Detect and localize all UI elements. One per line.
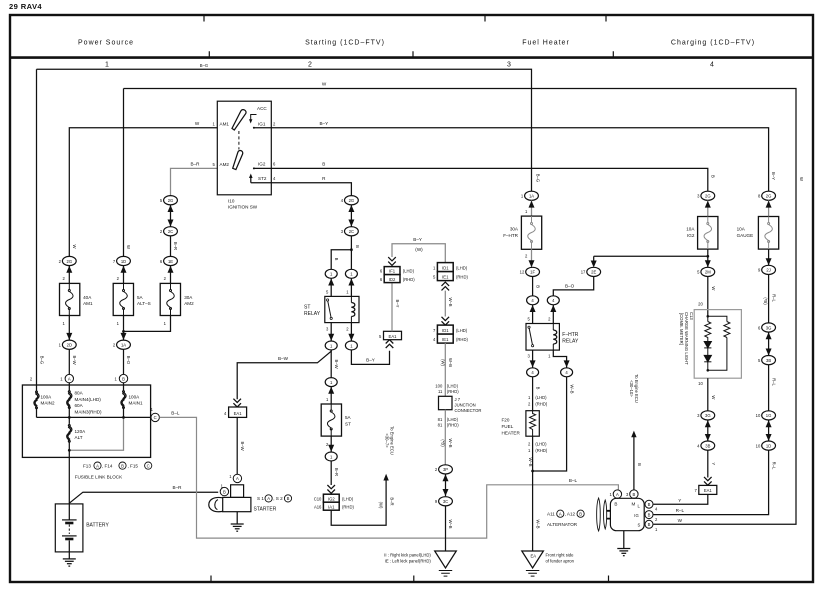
- svg-text:B–Y: B–Y: [395, 300, 400, 308]
- svg-text:B–Y: B–Y: [413, 237, 422, 242]
- svg-text:B–G: B–G: [40, 356, 45, 364]
- svg-text:C: C: [147, 463, 150, 468]
- svg-text:B: B: [648, 512, 651, 517]
- 2(3P) / 9(3C): [439, 465, 453, 474]
- connectors A and B on top: [613, 490, 621, 498]
- svg-text:B: B: [614, 501, 617, 506]
- circled A: [65, 374, 73, 382]
- connector 6(1E): [164, 256, 178, 265]
- svg-text:(RHD): (RHD): [447, 389, 459, 394]
- svg-text:(*B): (*B): [763, 297, 768, 305]
- fuse 10A IG2: [698, 217, 718, 250]
- svg-text:B–L: B–L: [171, 410, 180, 415]
- wire fuse to 2(1A) with junction from AM2 fuse: [123, 316, 125, 341]
- wire B-Y horizontal: [271, 128, 768, 192]
- fuse 10A GAUGE: [758, 217, 778, 250]
- svg-text:(RHD): (RHD): [456, 274, 468, 279]
- svg-text:IG2: IG2: [328, 496, 335, 501]
- wire to C13: [707, 277, 709, 317]
- svg-text:(RHD): (RHD): [535, 402, 547, 407]
- connector 5(2G): [164, 196, 178, 205]
- svg-text:<30–7>: <30–7>: [384, 433, 389, 448]
- svg-text:BATTERY: BATTERY: [86, 522, 109, 528]
- svg-text:B–R: B–R: [334, 468, 339, 476]
- fuse 5A ALT-S: [113, 283, 133, 315]
- svg-text:2: 2: [308, 62, 312, 69]
- svg-text:10: 10: [698, 381, 703, 386]
- svg-text:(W): (W): [440, 359, 445, 366]
- svg-text:W: W: [72, 245, 77, 249]
- svg-text:A: A: [559, 511, 562, 516]
- circles 4 below: [527, 368, 539, 377]
- svg-text:ID1: ID1: [442, 265, 449, 270]
- svg-text:, F14: , F14: [102, 463, 113, 468]
- svg-text:MAIN1: MAIN1: [129, 401, 143, 406]
- svg-text:HEATER: HEATER: [502, 430, 521, 435]
- wire W horizontal: [124, 89, 797, 525]
- gray wire down to J7: [444, 343, 446, 396]
- svg-text:IGNITION SW: IGNITION SW: [228, 204, 258, 209]
- svg-text:A: A: [68, 376, 71, 381]
- svg-text:MAIN2: MAIN2: [41, 401, 55, 406]
- svg-text:B–W: B–W: [278, 356, 289, 361]
- svg-text:FUEL: FUEL: [502, 424, 514, 429]
- F20 fuel heater: [526, 411, 539, 437]
- svg-text:B: B: [355, 245, 360, 248]
- bus to (C): [37, 416, 151, 418]
- svg-text:C13: C13: [689, 312, 694, 320]
- svg-text:3B: 3B: [766, 358, 771, 363]
- svg-text:A11: A11: [547, 512, 555, 517]
- circle (1): [325, 378, 337, 387]
- svg-text:(LHD): (LHD): [403, 269, 415, 274]
- svg-text:5A: 5A: [345, 415, 352, 420]
- svg-text:, S 2: , S 2: [273, 496, 283, 501]
- svg-text:3P: 3P: [443, 467, 448, 472]
- svg-text:B: B: [322, 162, 325, 167]
- svg-text:W: W: [126, 245, 131, 249]
- ticks bottom border: [211, 576, 609, 583]
- svg-text:(RHD): (RHD): [456, 337, 468, 342]
- svg-text:IA1: IA1: [328, 504, 335, 509]
- To Engine ECU (30-10) arrow: [633, 437, 635, 490]
- MAIN4/MAIN3 link: [67, 391, 72, 409]
- svg-text:12: 12: [520, 270, 525, 275]
- svg-text:of fender apron: of fender apron: [546, 558, 575, 563]
- J7 box: [439, 396, 453, 409]
- circled B: [119, 374, 127, 382]
- svg-text:W–B: W–B: [448, 519, 453, 528]
- svg-text:W: W: [195, 121, 200, 126]
- svg-text:R–L: R–L: [771, 294, 776, 302]
- svg-text:B: B: [122, 376, 125, 381]
- svg-text:A: A: [96, 463, 99, 468]
- ALT link: [67, 425, 72, 443]
- svg-text:R–L: R–L: [771, 378, 776, 386]
- svg-text:ST: ST: [345, 422, 351, 427]
- svg-text:B–W: B–W: [334, 359, 339, 368]
- ACC contact: [251, 115, 257, 122]
- fuse 5A ST: [321, 404, 341, 436]
- svg-text:EA1: EA1: [234, 411, 243, 416]
- wire B-G left vertical down to fusible link block: [36, 69, 38, 385]
- svg-text:2J: 2J: [766, 268, 770, 273]
- gray link MAIN1 to ALT out: [69, 417, 123, 450]
- svg-text:Charging (1CD–FTV): Charging (1CD–FTV): [671, 40, 755, 47]
- svg-text:Starting (1CD–FTV): Starting (1CD–FTV): [305, 40, 385, 47]
- wire R horizontal: [271, 183, 351, 196]
- svg-text:W: W: [711, 286, 716, 290]
- C13 box (gray): [694, 310, 741, 379]
- svg-text:10A: 10A: [737, 227, 746, 232]
- svg-text:1F: 1F: [530, 270, 535, 275]
- ground triangle II/IE kick panel: [435, 551, 457, 568]
- svg-text:AM2: AM2: [184, 301, 194, 306]
- svg-text:B–R: B–R: [173, 485, 183, 490]
- svg-text:100: 100: [435, 383, 443, 388]
- svg-text:B: B: [648, 522, 651, 527]
- EA1(4) box: [229, 407, 247, 417]
- svg-text:1G: 1G: [766, 413, 772, 418]
- svg-text:29 RAV4: 29 RAV4: [9, 2, 42, 11]
- ST2 contact: [251, 176, 271, 183]
- 3(3G) / 4(3B): [701, 411, 715, 420]
- svg-text:B: B: [536, 285, 541, 288]
- svg-text:B: B: [637, 463, 642, 466]
- svg-text:B–R: B–R: [390, 497, 395, 505]
- below C13: [707, 378, 709, 411]
- svg-text:17: 17: [581, 270, 586, 275]
- svg-text:(LHD): (LHD): [447, 383, 459, 388]
- svg-text:120A: 120A: [75, 429, 87, 434]
- connector 3(2G): [701, 191, 715, 200]
- svg-text:B: B: [710, 175, 715, 178]
- svg-text:2G: 2G: [766, 194, 772, 199]
- svg-text:I10: I10: [228, 198, 235, 203]
- svg-text:R–L: R–L: [676, 508, 685, 513]
- svg-text:4: 4: [710, 62, 714, 69]
- svg-text:S 1: S 1: [257, 496, 264, 501]
- svg-text:B–Y: B–Y: [319, 121, 328, 126]
- svg-text:JUNCTION: JUNCTION: [455, 402, 476, 407]
- svg-text:RELAY: RELAY: [562, 338, 579, 344]
- connector 1(1A): [525, 191, 539, 200]
- svg-text:(LHD): (LHD): [342, 496, 354, 501]
- svg-text:ID2: ID2: [389, 277, 396, 282]
- svg-text:3: 3: [507, 62, 511, 69]
- svg-text:[COMB. METER]: [COMB. METER]: [679, 313, 684, 345]
- down to EA1(7): [707, 450, 709, 477]
- solenoid + body: [231, 485, 244, 498]
- circles (1) top: [325, 269, 337, 278]
- svg-text:B–R: B–R: [173, 242, 178, 250]
- svg-text:2D: 2D: [67, 343, 72, 348]
- svg-text:W–B: W–B: [448, 297, 453, 306]
- svg-text:C10: C10: [314, 496, 322, 501]
- entries: [37, 383, 124, 391]
- ticks on thick line: [209, 51, 613, 57]
- svg-text:W–B: W–B: [536, 519, 541, 528]
- wire 2D to (A): [68, 349, 70, 374]
- svg-text:W: W: [322, 82, 327, 87]
- svg-text:ST2: ST2: [258, 176, 267, 181]
- gray bridge to ID1/IE1: [392, 244, 445, 263]
- IG2 contact: [254, 167, 271, 169]
- right branch W-B: [533, 377, 567, 471]
- ground triangle EA fender apron: [522, 551, 544, 568]
- switch lever AM2: [233, 151, 243, 170]
- svg-text:B–Y: B–Y: [366, 358, 375, 363]
- svg-text:RELAY: RELAY: [304, 311, 321, 317]
- svg-text:A: A: [267, 496, 270, 501]
- svg-text:Front right side: Front right side: [546, 552, 575, 557]
- svg-text:11: 11: [438, 389, 443, 394]
- svg-text:(RHD): (RHD): [447, 422, 459, 427]
- svg-text:20: 20: [698, 301, 703, 306]
- below F20: [532, 436, 534, 551]
- svg-text:W–B: W–B: [570, 384, 575, 393]
- svg-text:2E: 2E: [591, 270, 596, 275]
- wire AM2 fuse to 1A junction: [124, 316, 171, 332]
- svg-text:Y: Y: [711, 462, 716, 465]
- svg-text:A16: A16: [314, 504, 322, 509]
- IG1 contact: [254, 127, 271, 129]
- svg-text:81: 81: [438, 417, 443, 422]
- lower ID1/IE1: [437, 325, 453, 334]
- below: junction with 2E branch: [707, 249, 709, 267]
- svg-text:F–HTR: F–HTR: [562, 332, 579, 338]
- right resistor branch: [708, 316, 727, 321]
- wire down with branch: [350, 236, 352, 269]
- double arrow 5(2G)-2(2C): [170, 205, 172, 227]
- svg-text:(LHD): (LHD): [456, 328, 468, 333]
- svg-text:EA1: EA1: [704, 488, 713, 493]
- svg-text:S: S: [638, 522, 641, 527]
- svg-text:(RHD): (RHD): [342, 504, 354, 509]
- svg-text:3G: 3G: [705, 413, 711, 418]
- svg-text:10: 10: [756, 413, 761, 418]
- svg-text:Fuel Heater: Fuel Heater: [522, 40, 570, 47]
- svg-text:CHARGE WARNING LIGHT: CHARGE WARNING LIGHT: [684, 312, 689, 365]
- ground (starter): [236, 512, 238, 517]
- svg-text:(RHD): (RHD): [535, 448, 547, 453]
- svg-text:2G: 2G: [349, 198, 355, 203]
- svg-text:B: B: [287, 496, 290, 501]
- svg-text:A: A: [236, 476, 239, 481]
- svg-text:W: W: [711, 395, 716, 399]
- left wire to F20: [532, 377, 534, 411]
- svg-text:60A: 60A: [75, 403, 84, 408]
- svg-text:J 7: J 7: [455, 397, 461, 402]
- svg-text:(*B): (*B): [440, 439, 445, 447]
- ground (battery): [63, 552, 76, 566]
- connector 2(2C): [164, 227, 178, 236]
- svg-text:B–O: B–O: [565, 283, 575, 288]
- wire down right up to ECU arrow: [331, 507, 386, 526]
- svg-text:80A: 80A: [75, 391, 84, 396]
- svg-text:<30–10>: <30–10>: [629, 380, 634, 397]
- IF1/ID2 connector box: [384, 267, 400, 275]
- svg-text:R–L: R–L: [771, 462, 776, 470]
- connector 5(2M): [701, 267, 715, 276]
- switch lever AM1 (pen nib): [232, 110, 246, 130]
- svg-text:1: 1: [105, 62, 109, 69]
- svg-text:C: C: [154, 415, 157, 420]
- svg-text:CONNECTOR: CONNECTOR: [455, 408, 482, 413]
- gray wire between: [444, 291, 446, 317]
- wire to ground triangle: [445, 506, 447, 551]
- wire B-R AM2 (gray): [171, 168, 218, 195]
- wire 2C to 1E: [170, 236, 172, 257]
- connector 2(1A): [117, 340, 131, 349]
- svg-text:W–B: W–B: [448, 438, 453, 447]
- svg-text:B–G: B–G: [536, 174, 541, 182]
- svg-text:IG2: IG2: [258, 162, 266, 167]
- wire B horizontal: [271, 168, 708, 191]
- svg-text:30A: 30A: [510, 227, 519, 232]
- circles (1) bottom: [325, 341, 337, 350]
- wire 2G to fuse: [68, 266, 70, 284]
- plates: [62, 519, 77, 521]
- svg-text:2C: 2C: [349, 229, 354, 234]
- svg-text:B: B: [223, 489, 226, 494]
- MAIN2 link: [36, 390, 38, 392]
- svg-text:IE : Left kick panel(RHD): IE : Left kick panel(RHD): [385, 558, 432, 563]
- svg-text:W: W: [799, 177, 804, 181]
- svg-text:IG2: IG2: [687, 233, 695, 238]
- svg-text:5A: 5A: [137, 295, 144, 300]
- svg-text:(LHD): (LHD): [447, 417, 459, 422]
- ground (alternator): [623, 531, 625, 542]
- wire W vertical col1 to 1D: [123, 89, 125, 257]
- MAIN1 link: [121, 391, 126, 409]
- svg-text:ALTERNATOR: ALTERNATOR: [547, 522, 578, 527]
- svg-text:(W): (W): [415, 247, 423, 252]
- circled C: [151, 413, 159, 421]
- fuse 30A AM2: [160, 283, 180, 315]
- wire fuse to 1(2D): [68, 316, 70, 341]
- svg-text:B–O: B–O: [126, 356, 131, 365]
- svg-text:100A: 100A: [41, 394, 53, 399]
- ticks top border: [204, 15, 606, 22]
- to 9(2J): [768, 249, 770, 265]
- svg-text:IE1: IE1: [442, 274, 449, 279]
- svg-text:10A: 10A: [686, 227, 695, 232]
- wire to alternator IG: [654, 450, 769, 514]
- relay ST (box): [325, 296, 359, 322]
- wire W from AM1: [69, 128, 217, 257]
- svg-text:IG1: IG1: [258, 122, 266, 127]
- C10/A16 connector box: [323, 494, 339, 502]
- svg-text:ALT–S: ALT–S: [137, 301, 151, 306]
- wire B-G horizontal: [37, 69, 532, 191]
- svg-text:10: 10: [756, 443, 761, 448]
- svg-text:3G: 3G: [766, 325, 772, 330]
- connector 4(2G): [345, 196, 359, 205]
- fuse 40A AM1: [60, 283, 80, 315]
- svg-text:3B: 3B: [705, 443, 710, 448]
- wire to 6(3G): [768, 275, 770, 323]
- arrows into circles 4 from relay: [533, 305, 554, 324]
- svg-text:Power Source: Power Source: [78, 40, 134, 47]
- connector 7(1D): [117, 256, 131, 265]
- header underline (thick): [10, 56, 813, 59]
- svg-text:1D: 1D: [121, 259, 126, 264]
- wire to 10(1G): [768, 365, 770, 411]
- Y wire to alternator L: [654, 494, 708, 504]
- svg-text:F20: F20: [502, 418, 510, 423]
- svg-text:(LHD): (LHD): [535, 441, 547, 446]
- svg-text:2M: 2M: [705, 270, 711, 275]
- svg-text:AM1: AM1: [220, 122, 230, 127]
- svg-text:II : Right kick panel(LHD): II : Right kick panel(LHD): [384, 552, 431, 557]
- svg-text:F–HTR: F–HTR: [503, 233, 518, 238]
- svg-text:ALT: ALT: [75, 435, 83, 440]
- bell housing: [209, 497, 223, 511]
- svg-text:2G: 2G: [67, 259, 73, 264]
- svg-text:B: B: [121, 463, 124, 468]
- svg-text:EA: EA: [531, 554, 537, 559]
- svg-text:AM2: AM2: [220, 162, 230, 167]
- svg-text:A: A: [616, 492, 619, 497]
- svg-text:ACC: ACC: [257, 106, 267, 111]
- svg-text:Y: Y: [678, 498, 681, 503]
- to circle (1): [330, 436, 332, 452]
- svg-text:IE1: IE1: [442, 337, 449, 342]
- svg-text:B–W: B–W: [72, 355, 77, 364]
- svg-text:M: M: [632, 501, 636, 506]
- svg-text:B–G: B–G: [200, 63, 208, 68]
- svg-text:2G: 2G: [705, 194, 711, 199]
- upper ID1/IE1: [437, 263, 453, 272]
- wires to relay with arrows up into circles: [331, 278, 351, 296]
- svg-text:(W): (W): [379, 502, 384, 509]
- svg-text:IF1: IF1: [389, 269, 396, 274]
- down to circle 4: [532, 277, 534, 296]
- svg-text:MAIN3(RHD): MAIN3(RHD): [75, 410, 103, 415]
- dashed link: [238, 131, 240, 150]
- svg-text:(LHD): (LHD): [535, 395, 547, 400]
- svg-text:30A: 30A: [184, 295, 193, 300]
- svg-text:FUSIBLE LINK BLOCK: FUSIBLE LINK BLOCK: [75, 474, 123, 479]
- connector 8(2G): [762, 191, 776, 200]
- diagonal from circle to B-W run: [237, 350, 331, 399]
- connector 3(2C): [345, 227, 359, 236]
- svg-text:W: W: [678, 518, 683, 523]
- gray wire up to IF1/ID2: [391, 283, 393, 331]
- fuse 30A F-HTR: [521, 216, 541, 249]
- svg-text:100A: 100A: [129, 394, 141, 399]
- svg-text:ID1: ID1: [442, 328, 449, 333]
- svg-text:B–R: B–R: [191, 162, 201, 167]
- below J7: [444, 410, 446, 465]
- svg-text:, A12: , A12: [565, 512, 576, 517]
- svg-text:AM1: AM1: [83, 301, 93, 306]
- alternator A11(A), A12(B) body: [610, 498, 644, 530]
- svg-text:W–B: W–B: [528, 457, 533, 466]
- svg-text:B: B: [648, 502, 651, 507]
- wire to C10: [330, 461, 332, 485]
- svg-text:1D: 1D: [766, 443, 771, 448]
- connector 1(2D): [62, 340, 76, 349]
- svg-text:MAIN4(LHD): MAIN4(LHD): [75, 397, 102, 402]
- svg-text:ST: ST: [304, 305, 310, 311]
- svg-text:1A: 1A: [121, 343, 126, 348]
- svg-text:B: B: [633, 492, 636, 497]
- belt / pulley: [597, 498, 601, 531]
- svg-text:2G: 2G: [168, 198, 174, 203]
- svg-text:1A: 1A: [529, 194, 534, 199]
